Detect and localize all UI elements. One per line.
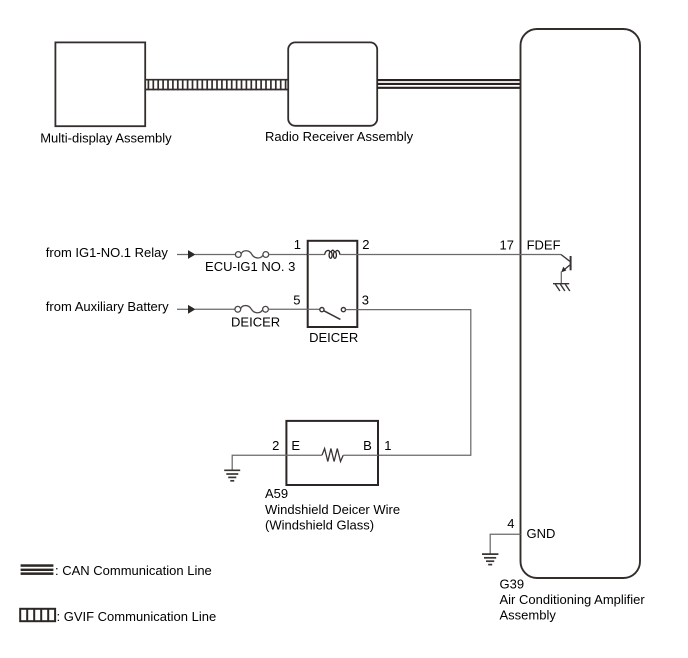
wire: A59 pin 2 to ground <box>232 455 286 470</box>
legend: GVIF communication line symbol <box>20 609 55 621</box>
transistor emitter arrowhead <box>561 267 566 273</box>
svg-text:Air Conditioning Amplifier: Air Conditioning Amplifier <box>500 592 646 607</box>
wire: arrow to fuse DEICER <box>195 308 235 310</box>
wire: A59 internal (B side) <box>343 454 378 456</box>
svg-text:E: E <box>291 438 300 453</box>
box: Radio Receiver Assembly <box>288 42 377 125</box>
svg-text:from Auxiliary Battery: from Auxiliary Battery <box>46 299 169 314</box>
earth ground (G39 GND) <box>482 554 498 565</box>
wire: fuse to relay pin 5 <box>268 308 307 310</box>
svg-text:from IG1-NO.1 Relay: from IG1-NO.1 Relay <box>46 245 169 260</box>
relay switch blade <box>324 311 341 320</box>
wire: IG1 feed <box>177 254 189 256</box>
wire: relay pin 2 to amplifier pin 17 (FDEF) <box>357 254 561 256</box>
earth ground (A59) <box>224 470 240 481</box>
svg-text:ECU-IG1 NO. 3: ECU-IG1 NO. 3 <box>205 259 295 274</box>
arrow: auxiliary battery feed <box>188 305 196 314</box>
legend: CAN communication line symbol <box>21 564 54 575</box>
relay coil <box>325 250 340 258</box>
svg-text:Assembly: Assembly <box>500 608 557 623</box>
svg-text:B: B <box>363 438 372 453</box>
wire: emitter to chassis ground <box>560 272 562 284</box>
svg-text:FDEF: FDEF <box>527 237 561 252</box>
GVIF communication line (hatched bus between Multi-display and Radio Receiver) <box>146 79 289 90</box>
svg-text:G39: G39 <box>500 577 525 592</box>
transistor base bar <box>570 256 572 270</box>
wire: A59 internal (E side) <box>286 454 322 456</box>
wire: arrow to fuse <box>195 254 235 256</box>
svg-text:2: 2 <box>272 438 279 453</box>
svg-text:DEICER: DEICER <box>231 314 280 329</box>
svg-text:1: 1 <box>294 237 301 252</box>
relay coil wire (pin2 side) <box>340 254 357 256</box>
transistor (FDEF output driver): collector lead <box>561 255 570 262</box>
relay switch wire (pin5 side) <box>308 308 320 310</box>
chassis ground (FDEF) <box>553 284 570 291</box>
wire: fuse to relay pin 1 <box>269 254 309 256</box>
relay DEICER box <box>308 241 358 327</box>
box: Air Conditioning Amplifier Assembly (G39) <box>521 29 641 578</box>
relay coil wire (pin1 side) <box>308 254 325 256</box>
svg-text:: GVIF Communication Line: : GVIF Communication Line <box>57 609 217 624</box>
box: Multi-display Assembly <box>55 42 145 126</box>
svg-text:5: 5 <box>293 292 300 307</box>
fuse DEICER <box>235 306 268 313</box>
svg-text:DEICER: DEICER <box>309 330 358 345</box>
fuse ECU-IG1 NO. 3 <box>235 251 268 258</box>
svg-text:2: 2 <box>362 237 369 252</box>
svg-text:1: 1 <box>384 438 391 453</box>
transistor emitter lead <box>563 265 570 271</box>
svg-text:3: 3 <box>362 292 369 307</box>
svg-text:A59: A59 <box>265 486 288 501</box>
svg-text:Multi-display Assembly: Multi-display Assembly <box>40 131 172 146</box>
svg-text:GND: GND <box>527 526 556 541</box>
CAN communication line (triple bus between Radio Receiver and Amplifier) <box>377 80 520 88</box>
resistor (windshield deicer wire element) <box>322 449 343 462</box>
relay switch contact (left) <box>320 308 324 312</box>
wire: amplifier pin 4 to ground <box>490 534 520 553</box>
svg-text:4: 4 <box>507 516 514 531</box>
svg-text:(Windshield Glass): (Windshield Glass) <box>265 518 374 533</box>
wire: relay pin 3 to A59 pin 1 <box>357 310 471 456</box>
box: A59 Windshield Deicer Wire <box>286 421 378 485</box>
relay switch contact (right) <box>341 308 345 312</box>
svg-text:: CAN Communication Line: : CAN Communication Line <box>55 563 212 578</box>
svg-text:Radio Receiver Assembly: Radio Receiver Assembly <box>265 129 414 144</box>
wire: auxiliary battery feed <box>177 308 189 310</box>
svg-text:17: 17 <box>500 237 514 252</box>
relay switch wire (pin3 side) <box>346 309 358 311</box>
arrow: IG1 feed <box>188 250 196 259</box>
svg-text:Windshield Deicer Wire: Windshield Deicer Wire <box>265 502 400 517</box>
